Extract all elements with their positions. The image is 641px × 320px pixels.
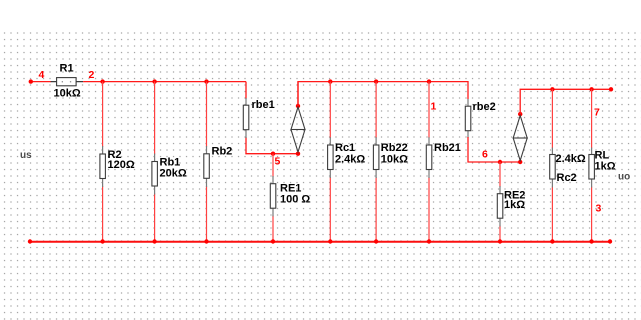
junction at Rb21 / node 1 — [427, 79, 437, 112]
junction at Rc2 — [550, 87, 554, 91]
junction bottom R2 — [100, 239, 104, 243]
node: input bottom terminal — [28, 239, 32, 243]
resistor Rb21 — [426, 82, 461, 242]
junction at Rb22 — [374, 79, 378, 83]
resistor Rb1 — [152, 82, 187, 242]
junction bottom Rc1 — [328, 239, 332, 243]
resistor Rb2 — [204, 82, 232, 242]
resistor rbe1 — [243, 82, 274, 155]
svg-text:uo: uo — [618, 172, 630, 183]
junction at RE1 / node 5 — [271, 152, 281, 168]
svg-text:2: 2 — [89, 69, 95, 81]
junction bottom Rb21 — [427, 239, 431, 243]
node 3 — [596, 203, 602, 215]
svg-text:rbe2: rbe2 — [473, 101, 496, 113]
node: output bottom terminal — [608, 239, 612, 243]
wire: bottom ground rail — [30, 241, 610, 243]
svg-text:R1: R1 — [60, 63, 74, 75]
svg-text:RE1: RE1 — [280, 182, 301, 194]
junction bottom RE1 — [271, 239, 275, 243]
junction bottom Rb22 — [374, 239, 378, 243]
svg-text:2.4kΩ: 2.4kΩ — [335, 154, 365, 166]
junction at R2 — [100, 79, 104, 83]
resistor Rc2 — [550, 89, 586, 241]
svg-text:20kΩ: 20kΩ — [160, 168, 187, 180]
svg-text:Rb2: Rb2 — [212, 146, 233, 158]
junction bottom RL — [589, 239, 593, 243]
svg-text:Rc2: Rc2 — [557, 172, 577, 184]
wire: input top lead from node 4 to R1 — [31, 81, 51, 83]
junction bottom Rb1 — [152, 239, 156, 243]
svg-text:2.4kΩ: 2.4kΩ — [556, 153, 586, 165]
resistor RE1 — [270, 154, 310, 242]
resistor R2 — [100, 82, 135, 242]
dependent current source 2 (diamond) — [513, 112, 528, 164]
svg-text:3: 3 — [596, 203, 602, 215]
svg-text:4: 4 — [39, 69, 45, 81]
junction bottom Rc2 — [550, 239, 554, 243]
svg-text:Rb21: Rb21 — [434, 142, 461, 154]
svg-text:RL: RL — [595, 149, 610, 161]
svg-text:10kΩ: 10kΩ — [54, 88, 81, 100]
svg-text:6: 6 — [482, 149, 488, 161]
junction bottom Rb2 — [204, 239, 208, 243]
svg-text:1kΩ: 1kΩ — [595, 161, 616, 173]
svg-text:10kΩ: 10kΩ — [381, 154, 408, 166]
junction at Rb1 — [152, 79, 156, 83]
node: output top terminal — [609, 87, 613, 91]
svg-text:5: 5 — [275, 156, 281, 168]
resistor rbe2 — [465, 99, 495, 138]
svg-text:7: 7 — [594, 107, 600, 119]
wire: top rail node 7 from source 2 to output — [520, 89, 611, 114]
dependent current source 1 (diamond) — [290, 82, 305, 156]
label uo — [618, 172, 630, 183]
svg-text:rbe1: rbe1 — [252, 99, 275, 111]
wire: node 6 from rbe2 down and right to source 2 — [468, 137, 520, 162]
junction at Rb2 — [204, 79, 208, 83]
resistor RL — [589, 89, 616, 241]
node 2 — [89, 69, 95, 81]
svg-text:120Ω: 120Ω — [108, 159, 135, 171]
resistor RE2 — [497, 162, 525, 242]
resistor R1 — [51, 63, 84, 100]
svg-text:us: us — [20, 150, 32, 161]
junction at Rc1 — [328, 79, 332, 83]
svg-text:Rb22: Rb22 — [381, 142, 408, 154]
wire: top rail node 2 from R1 to rbe1 corner — [83, 81, 246, 83]
svg-text:100 Ω: 100 Ω — [280, 194, 310, 206]
svg-text:1: 1 — [431, 101, 437, 113]
resistor Rb22 — [373, 82, 408, 242]
node 4 — [29, 69, 45, 84]
wire: node 5 horizontal from rbe1 to dependent source 1 — [245, 153, 298, 155]
node 6 — [482, 149, 502, 165]
label us — [20, 150, 32, 161]
junction bottom RE2 — [498, 239, 502, 243]
resistor Rc1 — [328, 82, 366, 242]
junction at RL / node 7 — [589, 87, 600, 118]
svg-text:Rc1: Rc1 — [335, 142, 355, 154]
wire: top rail node 1 from source 1 to rbe2 — [298, 82, 468, 106]
svg-text:1kΩ: 1kΩ — [504, 199, 525, 211]
